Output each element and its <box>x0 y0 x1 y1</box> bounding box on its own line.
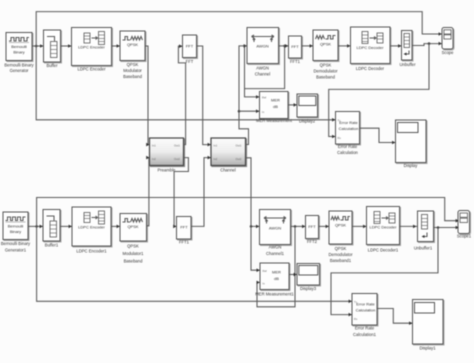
svg-text:Bernoulli Binary: Bernoulli Binary <box>1 241 31 246</box>
svg-text:Display3: Display3 <box>300 286 317 291</box>
wire branch to MER Ref <box>243 45 259 99</box>
svg-text:Ref: Ref <box>262 96 266 100</box>
block Display3 <box>297 264 320 292</box>
svg-text:Error Rate: Error Rate <box>355 326 375 331</box>
block QPSK Modulator Baseband1 <box>120 214 147 264</box>
block Display1 <box>413 300 444 351</box>
block Channel subsystem <box>211 138 246 173</box>
block Preamble subsystem <box>150 138 184 173</box>
svg-text:QPSK: QPSK <box>335 246 347 251</box>
svg-text:Out1: Out1 <box>174 144 180 148</box>
svg-text:FFT: FFT <box>186 44 194 49</box>
block QPSK Modulator Baseband <box>120 31 145 79</box>
svg-text:Generator: Generator <box>10 68 29 73</box>
svg-text:QPSK: QPSK <box>127 42 138 47</box>
block Scope <box>442 28 455 56</box>
wire Preamble Out1 to FFT <box>178 44 185 144</box>
svg-text:FFT1: FFT1 <box>290 59 301 64</box>
wire QPSK Modulator1 to Preamble In2 <box>146 156 149 226</box>
block LDPC Encoder1 <box>72 207 111 254</box>
wire QPSK Modulator to Preamble In1 <box>145 46 149 146</box>
block FFT1 <box>289 36 302 64</box>
svg-text:Error Rate: Error Rate <box>339 120 358 125</box>
wire Error Rate to Display <box>360 128 396 144</box>
svg-text:Baseband1: Baseband1 <box>330 258 352 263</box>
block FFT2 <box>177 217 192 245</box>
wire Buffer1 to LDPC Encoder1 <box>60 225 72 229</box>
block MER Measurement1 <box>255 263 294 297</box>
svg-text:Demodulator: Demodulator <box>314 69 339 74</box>
wire FFT1 branch down <box>245 45 286 89</box>
svg-text:FFT: FFT <box>308 224 316 229</box>
wire QPSK Demodulator1 to LDPC Decoder1 <box>352 225 366 229</box>
svg-text:Buffer1: Buffer1 <box>45 243 59 248</box>
svg-text:AWGN: AWGN <box>269 226 281 231</box>
block FFT <box>183 35 197 64</box>
svg-text:Channel1: Channel1 <box>266 251 285 256</box>
svg-text:Out1: Out1 <box>236 144 242 148</box>
svg-text:MER Measurement: MER Measurement <box>256 118 293 123</box>
wire FFT1 to QPSK Demodulator <box>302 44 313 48</box>
wire Unbuffer branch to Error Rate Rx <box>329 44 429 139</box>
wire Unbuffer1 to Scope1 In2 <box>434 226 459 230</box>
wire branch to MER1 Ref <box>251 226 260 272</box>
svg-text:Calculation: Calculation <box>337 150 358 155</box>
wire Channel Out1 to AWGN <box>238 44 249 144</box>
svg-text:Unbuffer1: Unbuffer1 <box>414 246 433 251</box>
block Error Rate Calculation <box>336 112 360 156</box>
block AWGN Channel1 <box>260 210 291 257</box>
svg-text:LDPC Encoder: LDPC Encoder <box>78 45 105 50</box>
svg-text:dB: dB <box>273 104 278 109</box>
wire MER to Display2 <box>288 103 297 107</box>
svg-text:Display1: Display1 <box>419 346 436 351</box>
svg-text:Channel: Channel <box>255 72 271 77</box>
svg-text:Calculation: Calculation <box>356 308 376 313</box>
wire Error Rate1 to Display1 <box>377 309 412 326</box>
svg-text:In2: In2 <box>214 157 218 161</box>
svg-text:QPSK: QPSK <box>335 223 346 228</box>
wire LDPC Decoder to Unbuffer <box>390 44 401 48</box>
svg-text:LDPC Encoder1: LDPC Encoder1 <box>76 249 107 254</box>
wire FFT3 to QPSK Demodulator1 <box>319 225 329 229</box>
wire branch to MER1 In <box>257 226 296 306</box>
block AWGN Channel <box>247 28 279 77</box>
svg-text:MER: MER <box>271 98 280 103</box>
wire FFT2 to Channel In2 <box>191 156 211 227</box>
wire Tx bits to Error Rate Tx <box>36 46 335 122</box>
wire LDPC Encoder to QPSK Modulator <box>112 44 120 48</box>
svg-text:QPSK: QPSK <box>320 42 331 47</box>
block Buffer <box>44 30 61 68</box>
svg-text:AWGN: AWGN <box>269 245 282 250</box>
wire AWGN to FFT1 <box>279 44 289 48</box>
svg-text:Baseband: Baseband <box>316 75 336 80</box>
svg-text:Buffer: Buffer <box>46 63 58 68</box>
block LDPC Decoder1 <box>367 207 400 253</box>
block LDPC Encoder <box>72 28 112 72</box>
svg-text:Bernoulli Binary: Bernoulli Binary <box>4 63 34 68</box>
block Display <box>396 120 427 168</box>
svg-text:QPSK: QPSK <box>127 244 139 249</box>
block QPSK Demodulator Baseband1 <box>329 211 354 263</box>
svg-text:FFT: FFT <box>186 59 194 64</box>
wire FFT to Channel In1 <box>197 46 211 146</box>
wire Unbuffer to Scope In2 <box>412 42 442 46</box>
svg-text:FFT: FFT <box>291 44 299 49</box>
wire branch to MER In2 <box>239 109 259 113</box>
wire Unbuffer1 branch to Error Rate1 Rx <box>331 228 438 317</box>
block Buffer1 <box>43 210 60 248</box>
wire LDPC Decoder1 to Unbuffer1 <box>400 225 418 229</box>
wire Tx1 bits to Scope1 In1 <box>37 198 459 227</box>
svg-text:Calculation1: Calculation1 <box>353 332 377 337</box>
svg-text:Ref: Ref <box>263 269 267 273</box>
svg-text:Demodulator: Demodulator <box>329 252 354 257</box>
svg-text:Scope1: Scope1 <box>457 234 472 239</box>
svg-text:FFT2: FFT2 <box>307 239 318 244</box>
block FFT3 <box>306 216 319 245</box>
svg-text:Bernoulli: Bernoulli <box>11 44 27 49</box>
block Error Rate Calculation1 <box>352 294 377 338</box>
svg-text:LDPC Decoder1: LDPC Decoder1 <box>368 248 399 253</box>
wire Channel Out2 to AWGN1 <box>246 158 260 228</box>
wire LDPC Encoder1 to QPSK Modulator1 <box>111 225 120 229</box>
svg-text:Scope: Scope <box>442 50 455 55</box>
wire Bernoulli to Buffer <box>32 44 43 48</box>
svg-text:In2: In2 <box>152 157 156 161</box>
svg-text:Binary: Binary <box>10 229 21 234</box>
svg-text:LDPC Decoder: LDPC Decoder <box>370 225 398 230</box>
wire MER1 to Display3 <box>289 273 297 277</box>
svg-text:MER: MER <box>272 270 281 275</box>
svg-text:LDPC Decoder: LDPC Decoder <box>357 45 385 50</box>
svg-text:Display2: Display2 <box>299 119 316 124</box>
block MER Measurement <box>256 92 293 124</box>
svg-text:FFT: FFT <box>180 225 188 230</box>
svg-text:Calculation: Calculation <box>339 126 359 131</box>
svg-text:Baseband: Baseband <box>124 259 144 264</box>
svg-text:Channel: Channel <box>220 168 236 173</box>
svg-text:FFT1: FFT1 <box>179 240 190 245</box>
svg-text:QPSK: QPSK <box>127 62 139 67</box>
block Display2 <box>297 94 318 124</box>
svg-text:Display: Display <box>404 163 419 168</box>
svg-text:AWGN: AWGN <box>256 44 268 49</box>
svg-text:dB: dB <box>274 276 279 281</box>
svg-text:LDPC Decoder: LDPC Decoder <box>356 66 385 71</box>
svg-text:Unbuffer: Unbuffer <box>400 62 417 67</box>
svg-text:Generator1: Generator1 <box>5 248 27 253</box>
block Bernoulli Binary Generator1 <box>1 212 31 253</box>
svg-text:AWGN: AWGN <box>256 66 269 71</box>
wire QPSK Demodulator to LDPC Decoder <box>338 44 350 48</box>
svg-text:Bernoulli: Bernoulli <box>8 224 24 229</box>
wire Buffer to LDPC Encoder <box>61 44 72 48</box>
svg-text:Baseband: Baseband <box>123 74 143 79</box>
svg-text:Preamble: Preamble <box>158 168 177 173</box>
block Unbuffer <box>400 31 417 68</box>
svg-text:In1: In1 <box>152 144 156 148</box>
block Scope1 <box>457 211 472 239</box>
wire Preamble Out2 to FFT2 <box>173 158 188 229</box>
svg-text:QPSK: QPSK <box>320 63 332 68</box>
svg-text:Modulator: Modulator <box>123 68 142 73</box>
svg-text:Out2: Out2 <box>236 157 242 161</box>
wire Tx bits to Scope In1 <box>36 12 442 46</box>
svg-text:Out2: Out2 <box>174 157 180 161</box>
svg-text:LDPC Encoder: LDPC Encoder <box>78 67 107 72</box>
svg-text:QPSK: QPSK <box>127 224 138 229</box>
svg-text:Modulator1: Modulator1 <box>123 251 145 256</box>
svg-text:MER Measurement1: MER Measurement1 <box>255 292 294 297</box>
block Unbuffer1 <box>414 211 434 251</box>
block Bernoulli Binary Generator <box>4 33 34 74</box>
svg-text:Binary: Binary <box>13 50 24 55</box>
svg-text:LDPC Encoder: LDPC Encoder <box>78 225 105 230</box>
wire AWGN1 to FFT3 <box>291 225 306 229</box>
block QPSK Demodulator Baseband <box>313 30 338 80</box>
svg-text:Error Rate: Error Rate <box>356 302 375 307</box>
svg-text:Error Rate: Error Rate <box>338 144 358 149</box>
svg-text:In1: In1 <box>214 144 218 148</box>
wire Tx1 bits to Error Rate1 Tx <box>37 226 352 303</box>
wire Bernoulli1 to Buffer1 <box>28 225 43 229</box>
block LDPC Decoder <box>351 27 391 71</box>
